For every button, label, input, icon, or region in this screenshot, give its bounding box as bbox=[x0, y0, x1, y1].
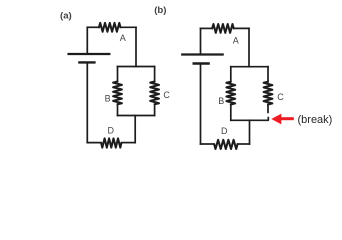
svg-text:D: D bbox=[108, 125, 115, 135]
svg-text:B: B bbox=[218, 96, 224, 106]
svg-text:C: C bbox=[163, 90, 170, 100]
svg-text:A: A bbox=[120, 33, 126, 43]
svg-text:D: D bbox=[221, 126, 228, 136]
svg-text:(b): (b) bbox=[154, 5, 166, 16]
svg-text:(a): (a) bbox=[60, 11, 72, 22]
svg-text:C: C bbox=[277, 92, 284, 102]
svg-text:(break): (break) bbox=[298, 114, 333, 126]
svg-text:B: B bbox=[105, 93, 111, 103]
svg-text:A: A bbox=[233, 35, 239, 45]
